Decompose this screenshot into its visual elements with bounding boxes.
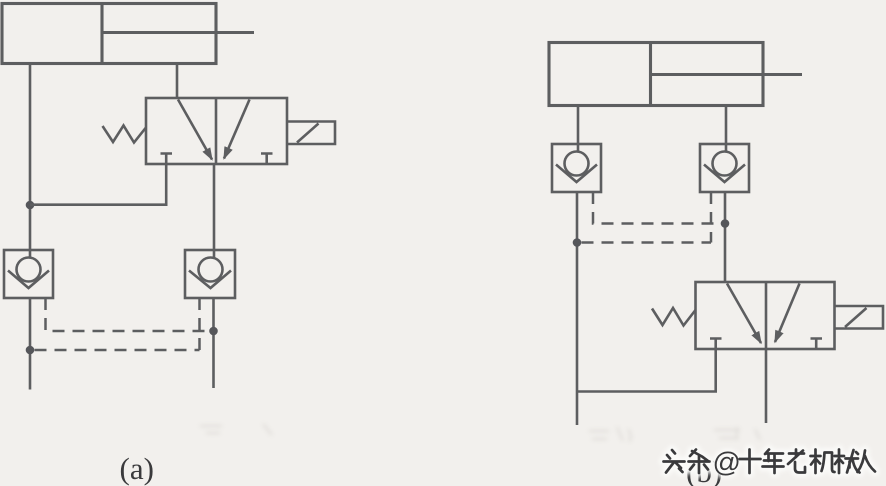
node J4 [721, 219, 730, 228]
pilot line from CV4 to node J5 (dashed) [582, 192, 712, 243]
valve V1 right flow arrow [224, 100, 250, 159]
svg-text:(a): (a) [120, 451, 154, 486]
check valve CV2 ball [199, 258, 223, 282]
wire check valve CV3 outlet down [576, 192, 579, 425]
check valve CV1 body [4, 250, 53, 298]
valve V1 left flow arrow [178, 100, 212, 160]
valve V2 left flow arrow [727, 284, 761, 344]
wire check valve CV2 outlet down [212, 298, 215, 388]
cylinder CYL-B rod [651, 73, 803, 76]
valve V2 right flow arrow [775, 284, 800, 343]
node J2 [26, 346, 35, 355]
check valve CV4 seat [704, 165, 745, 183]
pilot line from CV1 to node J3 (dashed) [46, 298, 210, 331]
solenoid of valve V2 [835, 306, 884, 329]
check valve CV4 ball [713, 152, 737, 176]
pilot line from CV3 to node J4 (dashed) [593, 192, 720, 224]
valve V1 body [146, 98, 287, 164]
check valve CV4 body [700, 144, 749, 192]
node J1 [26, 201, 35, 210]
valve V1 center divider [215, 98, 218, 164]
cylinder CYL-A piston [100, 4, 103, 63]
valve V2 left blocked port T [710, 339, 722, 350]
node J3 [209, 327, 218, 336]
cylinder CYL-A rod [102, 31, 254, 34]
check valve CV3 seat [556, 165, 597, 183]
pilot line from CV2 to node J2 (dashed) [35, 298, 200, 350]
scan bleed-through ghost marks [200, 424, 760, 442]
spring of valve V1 [103, 126, 147, 143]
spring of valve V2 [652, 308, 696, 326]
wire valve V1 bottom port down to check valve CV2 [213, 164, 216, 258]
solenoid of valve V1 [287, 122, 335, 145]
check valve CV1 ball [17, 258, 41, 282]
wire valve V2 bottom port down [765, 349, 768, 423]
wire cylinder-A left port down to check valve CV1 [29, 64, 32, 258]
wire check valve CV4 outlet down to valve V2 [724, 192, 727, 282]
valve V1 left blocked port T [161, 154, 173, 165]
wire cylinder-A right port down to valve V1 [176, 64, 179, 99]
wire valve V2 port A to left line [578, 349, 716, 392]
valve V1 right blocked port T [261, 154, 273, 165]
wire valve V1 port A to node J1 [30, 164, 166, 205]
cylinder CYL-B piston [649, 44, 652, 105]
wire cylinder-B left port to check valve CV3 [577, 106, 580, 153]
check valve CV3 ball [565, 152, 589, 176]
valve V2 right blocked port T [811, 339, 823, 350]
cylinder CYL-B barrel [549, 43, 763, 106]
wire check valve CV1 outlet down [29, 298, 32, 390]
check valve CV3 body [552, 144, 601, 192]
node J5 [573, 238, 582, 247]
valve V2 center divider [765, 282, 768, 349]
check valve CV2 body [185, 250, 235, 298]
check valve CV1 seat [8, 271, 49, 289]
valve V2 body [696, 282, 835, 349]
cylinder CYL-A barrel [2, 4, 216, 64]
check valve CV2 seat [189, 271, 231, 289]
wire cylinder-B right port to check valve CV4 [725, 106, 728, 153]
